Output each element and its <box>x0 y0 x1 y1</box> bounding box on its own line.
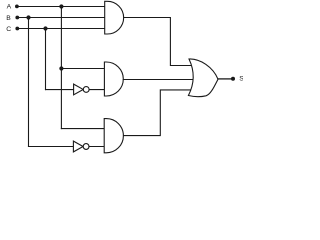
svg-text:A: A <box>7 4 12 11</box>
svg-text:S: S <box>239 76 243 83</box>
wire C: terminal to top AND gate <box>17 28 104 30</box>
svg-text:B: B <box>6 15 11 22</box>
wire: middle inverter output to middle AND bottom input <box>89 89 104 91</box>
wire: middle AND output to OR gate <box>123 79 193 81</box>
terminal dot C <box>15 27 19 31</box>
wire: bottom AND output <box>124 90 192 136</box>
wire: A branch to middle AND top input <box>61 68 104 70</box>
wire: C branch vertical down <box>45 29 47 90</box>
OR gate <box>188 59 218 97</box>
inverter (NOT gate) bottom <box>73 141 89 152</box>
wire: A branch to bottom AND top input <box>61 128 104 130</box>
wire A: terminal to top AND gate <box>17 6 105 8</box>
junction node A to middle AND <box>59 66 63 70</box>
wire: B branch to bottom inverter input <box>29 146 74 148</box>
junction node A branch <box>59 4 63 8</box>
wire: C branch to middle inverter input <box>46 89 74 91</box>
junction node B branch <box>26 15 30 19</box>
AND gate bottom (2-input) <box>104 119 123 153</box>
wire: B branch vertical down <box>28 18 30 147</box>
terminal dot A <box>15 5 19 9</box>
wire: bottom inverter output to bottom AND bottom input <box>89 146 104 148</box>
svg-text:C: C <box>6 26 11 33</box>
wire: A branch vertical down <box>60 7 62 129</box>
junction node C branch <box>43 26 47 30</box>
wire: OR gate output <box>218 78 232 80</box>
inverter (NOT gate) middle <box>74 84 90 95</box>
output dot S <box>231 77 235 81</box>
wire: top AND output <box>124 18 191 66</box>
wire B: terminal to top AND gate <box>17 17 104 19</box>
terminal dot B <box>15 16 19 20</box>
AND gate middle (2-input) <box>104 62 123 96</box>
AND gate top (3-input) <box>105 1 124 34</box>
